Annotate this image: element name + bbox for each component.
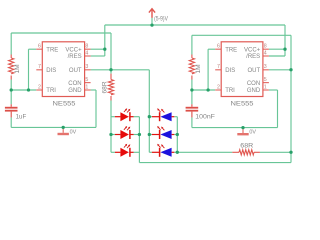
svg-text:1: 1 (85, 84, 88, 90)
svg-text:1uF: 1uF (16, 115, 27, 121)
svg-text:VCC+: VCC+ (244, 47, 261, 53)
svg-text:OUT: OUT (248, 68, 261, 74)
svg-text:4: 4 (264, 50, 267, 56)
svg-text:CON: CON (247, 81, 260, 87)
svg-text:VCC+: VCC+ (65, 47, 82, 53)
svg-text:CON: CON (68, 81, 81, 87)
svg-text:8: 8 (85, 44, 88, 50)
svg-text:3: 3 (85, 64, 88, 70)
svg-text:68R: 68R (240, 143, 254, 149)
svg-text:5: 5 (264, 77, 267, 83)
svg-text:3: 3 (264, 64, 267, 70)
svg-text:OUT: OUT (69, 68, 82, 74)
svg-text:TRI: TRI (46, 88, 56, 94)
svg-text:6: 6 (217, 44, 220, 50)
svg-text:(5-9)V: (5-9)V (154, 17, 168, 23)
svg-text:8: 8 (264, 44, 267, 50)
svg-text:GND: GND (68, 88, 82, 94)
svg-text:/RES: /RES (68, 54, 82, 60)
svg-text:1: 1 (264, 84, 267, 90)
svg-text:2: 2 (38, 84, 41, 90)
svg-text:/RES: /RES (246, 54, 260, 60)
svg-text:TRE: TRE (46, 47, 58, 53)
svg-text:TRI: TRI (225, 88, 235, 94)
svg-text:TRE: TRE (225, 47, 237, 53)
svg-text:7: 7 (38, 64, 41, 70)
svg-text:5: 5 (85, 77, 88, 83)
svg-text:0V: 0V (70, 129, 77, 135)
svg-text:NE555: NE555 (53, 100, 77, 107)
svg-text:68R: 68R (102, 81, 109, 93)
svg-text:100nF: 100nF (195, 114, 215, 121)
svg-text:7: 7 (217, 64, 220, 70)
svg-text:DIS: DIS (46, 68, 56, 74)
svg-text:6: 6 (38, 44, 41, 50)
svg-text:NE555: NE555 (231, 100, 255, 107)
svg-text:1M: 1M (14, 64, 21, 73)
svg-text:4: 4 (85, 50, 88, 56)
svg-text:GND: GND (247, 88, 261, 94)
svg-text:2: 2 (217, 84, 220, 90)
svg-text:DIS: DIS (225, 68, 235, 74)
svg-text:1M: 1M (195, 64, 202, 73)
svg-text:0V: 0V (249, 130, 256, 136)
